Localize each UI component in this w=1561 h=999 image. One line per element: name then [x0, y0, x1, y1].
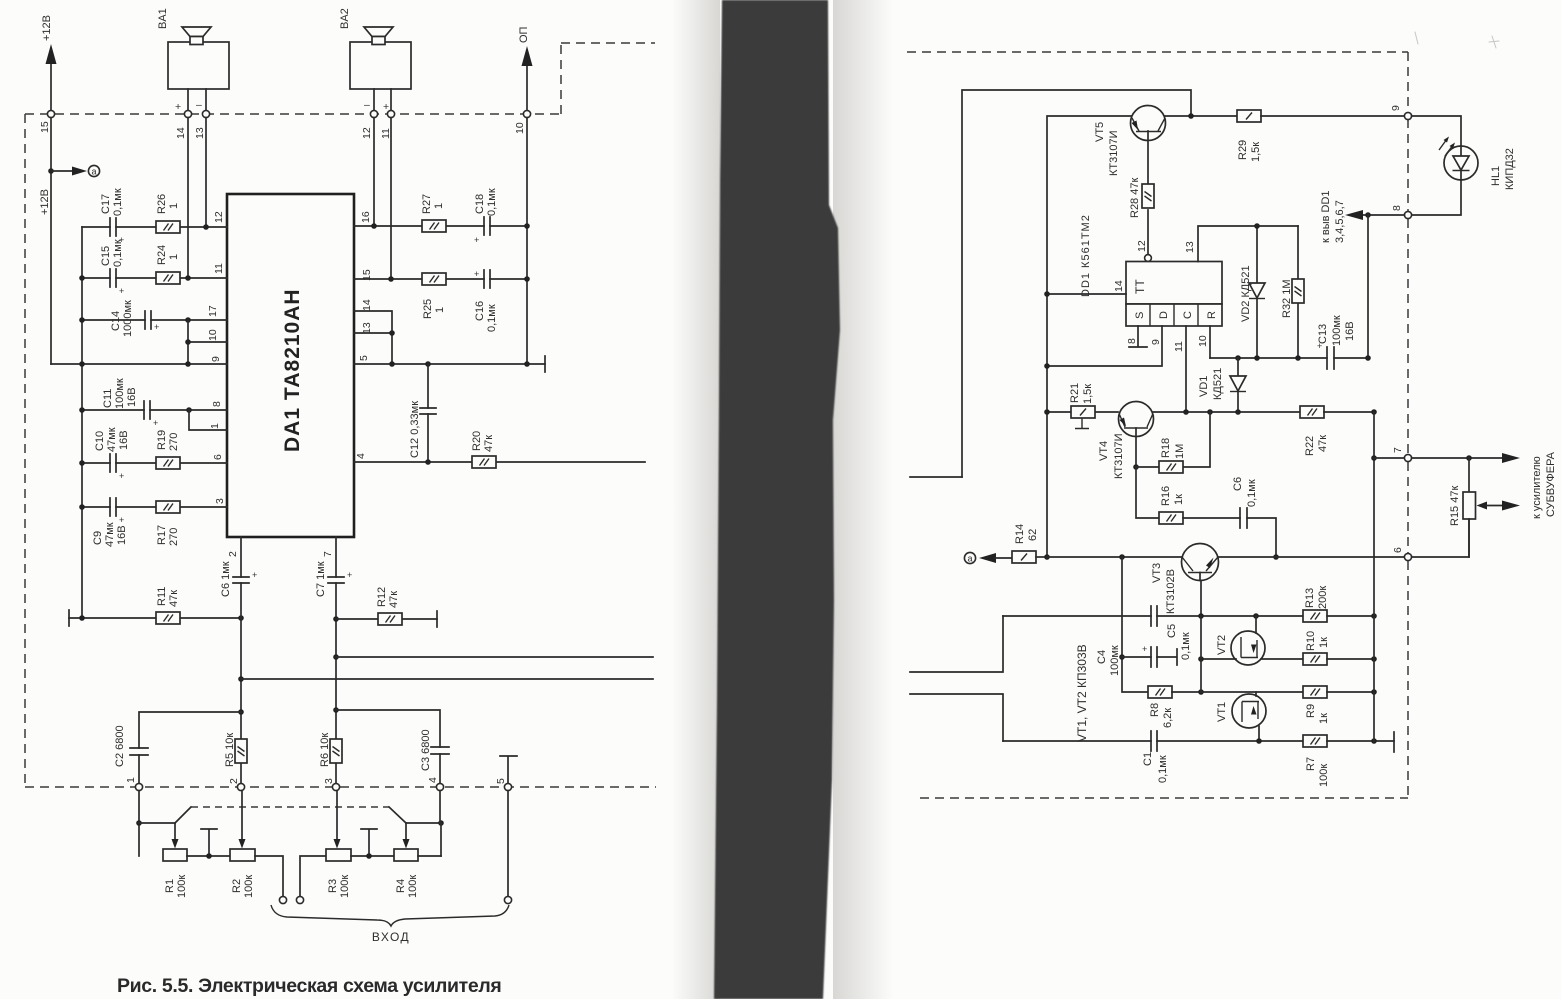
svg-text:КТ3102В: КТ3102В [1165, 569, 1177, 614]
svg-text:6: 6 [212, 454, 224, 460]
resistor R7 100k [1303, 735, 1394, 787]
svg-text:1: 1 [434, 307, 446, 313]
OP rail down [526, 118, 528, 364]
DD1 pin 11 wire [1185, 326, 1187, 412]
svg-text:C16: C16 [474, 301, 486, 321]
svg-text:1,5к: 1,5к [1082, 384, 1094, 404]
svg-text:–: – [196, 99, 202, 111]
svg-text:4: 4 [427, 777, 439, 783]
svg-text:+: + [119, 471, 124, 481]
svg-text:8: 8 [1391, 205, 1403, 211]
capacitor C3 [420, 729, 449, 771]
svg-text:+: + [153, 418, 158, 428]
svg-text:6,2к: 6,2к [1162, 708, 1174, 728]
svg-text:C2 6800: C2 6800 [114, 725, 126, 767]
left page dashed border [25, 113, 561, 115]
node pin12/BA2- junction [203, 224, 209, 230]
svg-text:R11: R11 [156, 587, 168, 606]
svg-text:11: 11 [1173, 341, 1185, 352]
resistor R10 1k [1303, 631, 1374, 665]
speaker BA1 [157, 8, 229, 113]
svg-text:R19: R19 [156, 430, 168, 450]
flip-flop DD1 K561TM2 [1080, 214, 1222, 326]
svg-text:R4: R4 [395, 879, 407, 893]
stray pencil marks top right [1415, 32, 1499, 48]
svg-text:3: 3 [214, 498, 226, 504]
svg-text:47мк: 47мк [104, 522, 116, 547]
terminal 8 [1404, 211, 1411, 218]
svg-text:C14: C14 [110, 311, 122, 331]
potentiometer R3 [326, 791, 351, 898]
svg-text:BA2: BA2 [339, 8, 351, 29]
svg-text:DA1 ТА8210АН: DA1 ТА8210АН [281, 288, 304, 452]
svg-text:47мк: 47мк [106, 427, 118, 452]
svg-text:к усилителю: к усилителю [1531, 456, 1543, 519]
svg-text:3: 3 [323, 778, 335, 784]
svg-text:КТ3107И: КТ3107И [1113, 433, 1125, 479]
resistor R26 [156, 194, 180, 233]
diode VD1 KD521 [1198, 358, 1246, 412]
capacitor C16 [474, 269, 498, 332]
svg-text:270: 270 [168, 433, 180, 451]
capacitor C11 [102, 378, 158, 428]
C1 row wire [1003, 740, 1303, 742]
DD1 pin 10 wire [1209, 326, 1211, 358]
svg-text:100к: 100к [1318, 764, 1330, 787]
svg-text:100к: 100к [243, 875, 255, 898]
svg-text:R2: R2 [231, 879, 243, 893]
pin 9 row wire [51, 363, 227, 365]
svg-text:R28 47к: R28 47к [1129, 178, 1141, 218]
DD1 pin 9 wire [1047, 326, 1162, 366]
terminal 9 [1404, 112, 1411, 119]
svg-text:11: 11 [213, 263, 225, 274]
svg-text:13: 13 [1184, 241, 1196, 253]
svg-text:1000мк: 1000мк [122, 300, 134, 337]
svg-text:12: 12 [1136, 240, 1148, 252]
OP output arrow [518, 26, 533, 114]
svg-text:R16: R16 [1160, 486, 1172, 506]
svg-text:3,4,5,6,7: 3,4,5,6,7 [1334, 200, 1346, 243]
svg-text:14: 14 [1113, 280, 1125, 292]
svg-text:+: + [474, 269, 479, 279]
svg-text:C6 1мк: C6 1мк [220, 561, 232, 597]
pin 4 row wire [354, 461, 645, 463]
node pin11/BA1+ junction [185, 275, 191, 281]
svg-text:R9: R9 [1305, 704, 1317, 718]
svg-text:VT3: VT3 [1151, 563, 1163, 583]
svg-text:DD1 К561ТМ2: DD1 К561ТМ2 [1080, 214, 1092, 297]
resistor R14 62 [1012, 524, 1047, 563]
svg-text:C: C [1182, 311, 1194, 319]
R1-R2 link with chassis tick [187, 829, 230, 856]
long wire to sheet 2 (upper) [336, 656, 653, 658]
svg-text:100к: 100к [339, 875, 351, 898]
svg-text:КТ3107И: КТ3107И [1108, 130, 1120, 176]
svg-text:100мк: 100мк [1109, 645, 1121, 676]
terminal 7 row [1374, 457, 1404, 459]
svg-text:–: – [364, 99, 370, 111]
DD1 pin 8 ground [1129, 326, 1147, 347]
svg-text:+: + [154, 322, 159, 332]
svg-text:R32 1М: R32 1М [1281, 279, 1293, 318]
svg-text:D: D [1158, 311, 1170, 319]
capacitor C4 100mk [1096, 644, 1177, 676]
pin 6 row wire [82, 462, 227, 464]
speaker BA2 [339, 8, 411, 113]
resistor R17 [156, 501, 180, 546]
VT5 collector wire [1165, 115, 1237, 117]
svg-text:C13: C13 [1317, 324, 1329, 344]
wire VT4 node down to R16 [1136, 467, 1159, 518]
supply corner wire [962, 90, 1191, 477]
input brace [271, 905, 509, 926]
svg-text:R3: R3 [327, 879, 339, 893]
svg-text:5: 5 [495, 778, 507, 784]
node pin17 [185, 317, 191, 323]
DD1 pin12 inversion circle [1145, 255, 1152, 262]
svg-text:13: 13 [194, 127, 206, 139]
svg-text:C4: C4 [1096, 650, 1108, 664]
rail x=1122 down [1122, 557, 1148, 692]
svg-text:14: 14 [361, 299, 373, 311]
R2 output wire [255, 856, 283, 896]
terminal 6 [1404, 553, 1411, 560]
resistor R16 1k [1159, 486, 1240, 524]
svg-text:10: 10 [207, 329, 219, 341]
svg-text:Рис. 5.5. Электрическая схема: Рис. 5.5. Электрическая схема усилителя [117, 975, 501, 997]
svg-text:2: 2 [228, 778, 240, 784]
svg-text:9: 9 [1390, 105, 1402, 111]
svg-text:+12В: +12В [41, 15, 53, 41]
VT3 emitter rail [1200, 616, 1202, 692]
terminal 3 [332, 783, 339, 790]
capacitor C9 [92, 498, 128, 547]
svg-text:12: 12 [213, 211, 225, 223]
long wire to sheet 2 (lower) [241, 678, 653, 680]
resistor R29 1,5k [1237, 110, 1262, 162]
pin 15 row wire [354, 278, 527, 280]
resistor R21 1,5k [1047, 383, 1118, 429]
svg-text:1: 1 [168, 203, 180, 209]
svg-text:270: 270 [168, 528, 180, 546]
capacitor C17 [100, 188, 124, 245]
svg-text:R5 10к: R5 10к [224, 733, 236, 767]
svg-text:16В: 16В [116, 525, 128, 545]
svg-text:C11: C11 [102, 389, 114, 408]
svg-text:R26: R26 [156, 194, 168, 214]
svg-text:+: + [252, 570, 257, 580]
svg-text:12: 12 [361, 127, 373, 139]
capacitor C2 [114, 725, 148, 767]
svg-text:C10: C10 [94, 431, 106, 451]
wire terminal 6 to R15 [1412, 519, 1469, 557]
wire pins 17-10-9 tie [187, 320, 189, 364]
svg-text:8: 8 [1126, 338, 1138, 344]
VT4 emitter wire down [1135, 428, 1137, 467]
svg-text:0,1мк: 0,1мк [112, 239, 124, 267]
VT5 emitter wire to rail [1047, 116, 1131, 557]
pin 5 row wire [354, 363, 545, 365]
arrow to node a [979, 553, 996, 563]
svg-text:C3 6800: C3 6800 [420, 729, 432, 771]
svg-text:R24: R24 [156, 245, 168, 265]
fet VT2 [1198, 616, 1303, 665]
VT4 collector row wire [1153, 411, 1300, 413]
C13 row wire [1210, 357, 1368, 359]
svg-text:1к: 1к [1318, 713, 1330, 724]
capacitor C18 [474, 188, 498, 245]
+12V supply arrow [41, 15, 57, 114]
svg-text:R6 10к: R6 10к [319, 733, 331, 767]
svg-text:R1: R1 [164, 879, 176, 893]
node a circle (sheet link) [964, 552, 975, 563]
a-row wire VT3 to terminal 6 [1218, 556, 1404, 558]
svg-text:4: 4 [355, 453, 367, 459]
pin 8 row wire [82, 409, 227, 411]
svg-text:47к: 47к [1317, 435, 1329, 452]
resistor R27 [421, 194, 446, 232]
resistor R20 [471, 431, 496, 468]
input bracket wires from sheet 1 [910, 616, 1003, 672]
wire BA1+ to pin11 row [187, 118, 189, 278]
R3 input wire [300, 856, 326, 896]
diode VD2 KD521 [1240, 226, 1265, 358]
svg-text:+: + [347, 570, 352, 580]
LED to terminal 8 [1412, 180, 1461, 215]
svg-text:1: 1 [168, 254, 180, 260]
capacitor C13 [1317, 315, 1356, 369]
svg-text:+12В: +12В [39, 189, 51, 215]
wire to R4 slider [406, 822, 441, 824]
capacitor C14 [110, 300, 159, 337]
wire R29 to terminal 9 [1261, 115, 1404, 117]
svg-text:HL1: HL1 [1490, 166, 1502, 186]
svg-text:R27: R27 [421, 194, 433, 214]
terminal 2 [237, 783, 244, 790]
svg-text:R10: R10 [1305, 631, 1317, 651]
pin 11 row wire [82, 277, 227, 279]
svg-text:1к: 1к [1318, 637, 1330, 648]
svg-text:VT5: VT5 [1094, 122, 1106, 142]
svg-text:к выв DD1: к выв DD1 [1320, 190, 1332, 243]
svg-text:C5: C5 [1166, 624, 1178, 638]
svg-text:+: + [474, 235, 479, 245]
svg-text:16: 16 [360, 211, 372, 223]
svg-text:100к: 100к [176, 875, 188, 898]
svg-text:0,1мк: 0,1мк [112, 188, 124, 216]
capacitor C1 0,1mk [1142, 731, 1169, 783]
svg-text:62: 62 [1027, 529, 1039, 541]
svg-text:VD2 КД521: VD2 КД521 [1240, 265, 1252, 322]
svg-text:1к: 1к [1173, 494, 1185, 505]
svg-text:R22: R22 [1304, 436, 1316, 456]
svg-text:14: 14 [175, 127, 187, 139]
svg-text:0,1мк: 0,1мк [1246, 479, 1258, 507]
pins 14,13 stubs tie [354, 311, 392, 364]
terminal 11 [387, 110, 394, 117]
R9 row wire [1201, 691, 1303, 693]
svg-text:0,1мк: 0,1мк [1157, 755, 1169, 783]
transistor VT5 KT3107I [1094, 106, 1166, 177]
svg-text:1: 1 [433, 203, 445, 209]
svg-text:КД521: КД521 [1212, 368, 1224, 400]
transistor VT3 KT3102V [1151, 544, 1219, 615]
node a link (to second sheet) [39, 165, 100, 215]
wire BA1- to pin12 row [205, 118, 207, 227]
potentiometer R4 [394, 823, 419, 898]
svg-text:R29: R29 [1237, 140, 1249, 160]
svg-text:VT2: VT2 [1216, 635, 1228, 655]
svg-text:C12 0,33мк: C12 0,33мк [409, 401, 421, 458]
chassis tick end [1393, 732, 1395, 752]
wire C2 branch [139, 712, 241, 783]
svg-text:0,1мк: 0,1мк [486, 188, 498, 216]
capacitor C10 [94, 427, 130, 481]
svg-text:C17: C17 [100, 194, 112, 214]
svg-text:100мк: 100мк [114, 378, 126, 409]
svg-text:100мк: 100мк [1331, 315, 1343, 346]
right page dashed border bottom [920, 797, 1408, 799]
resistor R12 [336, 587, 437, 627]
potentiometer R2 [230, 791, 255, 898]
pin 10 row wire [188, 341, 227, 343]
svg-text:9: 9 [210, 356, 222, 362]
R4 right lead [418, 855, 441, 857]
svg-text:7: 7 [322, 551, 334, 557]
transistor VT4 KT3107I [1098, 402, 1154, 480]
svg-text:8: 8 [211, 401, 223, 407]
svg-text:0,1мк: 0,1мк [1180, 632, 1192, 660]
ganged link dashed [191, 806, 389, 808]
svg-text:C9: C9 [92, 531, 104, 545]
svg-text:47к: 47к [388, 591, 400, 608]
svg-text:200к: 200к [1317, 586, 1329, 609]
svg-text:VT1, VT2 КП303В: VT1, VT2 КП303В [1075, 644, 1089, 742]
wire terminal 5 down [507, 791, 509, 896]
svg-text:7: 7 [1392, 447, 1404, 453]
node pin8/pin1 tie [186, 407, 192, 413]
ganged link diagonal left [175, 807, 191, 823]
book gutter black band [0, 0, 1, 1]
svg-text:1: 1 [125, 777, 137, 783]
svg-text:0,1мк: 0,1мк [486, 304, 498, 332]
capacitor C5 0,1mk [1151, 606, 1192, 660]
svg-text:100к: 100к [407, 875, 419, 898]
svg-text:ТТ: ТТ [1133, 279, 1147, 294]
svg-text:R17: R17 [156, 525, 168, 545]
svg-text:15: 15 [39, 121, 51, 133]
pin 3 row wire [82, 506, 227, 508]
terminal 4 drop [440, 791, 441, 856]
svg-text:R8: R8 [1149, 703, 1161, 717]
pin 12 row wire [82, 226, 227, 228]
svg-text:C7 1мк: C7 1мк [315, 561, 327, 597]
capacitor C6b 0,1mk [1232, 477, 1276, 557]
right bus vertical [1373, 412, 1375, 741]
svg-text:ВХОД: ВХОД [372, 930, 410, 944]
resistor R19 [156, 430, 180, 469]
wire to sheet1 (left) [910, 476, 962, 478]
input network: terminal1 drop [138, 791, 140, 856]
resistor R32 1M [1281, 226, 1304, 358]
svg-text:ОП: ОП [518, 26, 530, 43]
svg-text:R25: R25 [422, 299, 434, 319]
terminal 13 [202, 110, 209, 117]
terminal 10 [523, 110, 530, 117]
R11 row: end tick [68, 610, 70, 626]
pin 7 / C7 vertical wire [335, 537, 337, 783]
wire C3 branch [336, 710, 440, 783]
resistor R13 200k [1303, 586, 1374, 622]
svg-text:C18: C18 [474, 194, 486, 214]
svg-text:R: R [1206, 311, 1218, 319]
VT3 base wire down [1200, 580, 1202, 616]
fet VT1 [1216, 692, 1266, 741]
trimmer R15 47k [1449, 458, 1520, 557]
svg-text:R21: R21 [1069, 383, 1081, 403]
svg-text:VT4: VT4 [1098, 441, 1110, 461]
svg-text:VD1: VD1 [1198, 376, 1210, 397]
a-row wire to VT3 [1047, 556, 1182, 558]
pin 2 / C6 vertical wire [240, 537, 242, 783]
resistor R8 6,2k [1148, 686, 1201, 728]
svg-text:16В: 16В [126, 387, 138, 407]
resistor R24 [156, 245, 180, 284]
svg-text:R12: R12 [376, 587, 388, 607]
wire to R1 slider [139, 822, 175, 824]
svg-text:+: + [175, 101, 181, 113]
svg-text:1,5к: 1,5к [1250, 142, 1262, 162]
common tick end of pin5 row [544, 356, 546, 372]
capacitor C7 [315, 561, 352, 597]
ganged link diagonal right [389, 807, 406, 823]
svg-text:1М: 1М [1174, 444, 1186, 459]
terminal 1 [135, 783, 142, 790]
resistor R28 47k [1129, 178, 1154, 218]
right page dashed border top [907, 51, 1408, 53]
svg-text:9: 9 [1150, 339, 1162, 345]
svg-text:47к: 47к [168, 590, 180, 607]
ground stub terminal 5 [500, 756, 517, 783]
svg-text:КИПД32: КИПД32 [1504, 148, 1516, 190]
svg-text:R20: R20 [471, 431, 483, 451]
svg-text:+: + [119, 286, 124, 296]
terminal 12 [370, 110, 377, 117]
wire node8 down [1367, 215, 1369, 358]
resistor R11 [69, 587, 241, 624]
DD1 pin 13 wire [1198, 226, 1298, 262]
resistor R18 1M [1136, 412, 1210, 473]
LED HL1 KIPD32 [1439, 137, 1516, 191]
svg-text:C1: C1 [1142, 752, 1154, 766]
svg-text:СУБВУФЕРА: СУБВУФЕРА [1545, 451, 1557, 517]
resistor R22 47k [1300, 406, 1374, 456]
terminal 15 [47, 110, 54, 117]
svg-text:BA1: BA1 [157, 8, 169, 29]
svg-text:1: 1 [209, 423, 221, 429]
svg-text:17: 17 [207, 305, 219, 317]
capacitor C12 [409, 364, 436, 462]
svg-text:C15: C15 [100, 246, 112, 266]
wire BA2+ to pin15 row [390, 118, 392, 279]
svg-text:6: 6 [1392, 547, 1404, 553]
svg-text:VT1: VT1 [1216, 702, 1228, 722]
arrow to DD1 pins [1345, 210, 1363, 220]
svg-text:+: + [1142, 644, 1147, 654]
potentiometer R1 [163, 823, 188, 898]
svg-text:C6: C6 [1232, 477, 1244, 491]
